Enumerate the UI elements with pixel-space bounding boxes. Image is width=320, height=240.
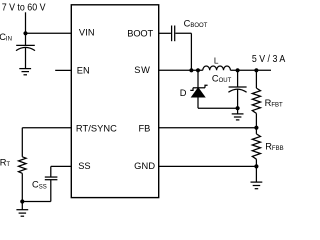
svg-text:5 V / 3 A: 5 V / 3 A (252, 54, 285, 65)
svg-text:EN: EN (77, 65, 90, 75)
svg-text:L: L (214, 56, 219, 66)
svg-text:GND: GND (134, 161, 155, 171)
svg-text:7 V to 60 V: 7 V to 60 V (2, 3, 46, 14)
svg-text:RT/SYNC: RT/SYNC (76, 123, 117, 133)
svg-text:VIN: VIN (79, 28, 95, 38)
svg-text:RT: RT (0, 158, 10, 168)
svg-text:BOOT: BOOT (127, 29, 153, 39)
svg-text:SW: SW (134, 65, 150, 75)
svg-text:RFBT: RFBT (265, 98, 283, 108)
svg-text:CSS: CSS (32, 180, 47, 191)
svg-text:FB: FB (139, 123, 151, 133)
svg-text:COUT: COUT (212, 74, 232, 85)
svg-text:CIN: CIN (0, 32, 12, 43)
svg-text:D: D (180, 88, 187, 98)
svg-text:RFBB: RFBB (265, 142, 283, 152)
svg-text:SS: SS (78, 161, 90, 171)
svg-text:CBOOT: CBOOT (184, 18, 208, 29)
